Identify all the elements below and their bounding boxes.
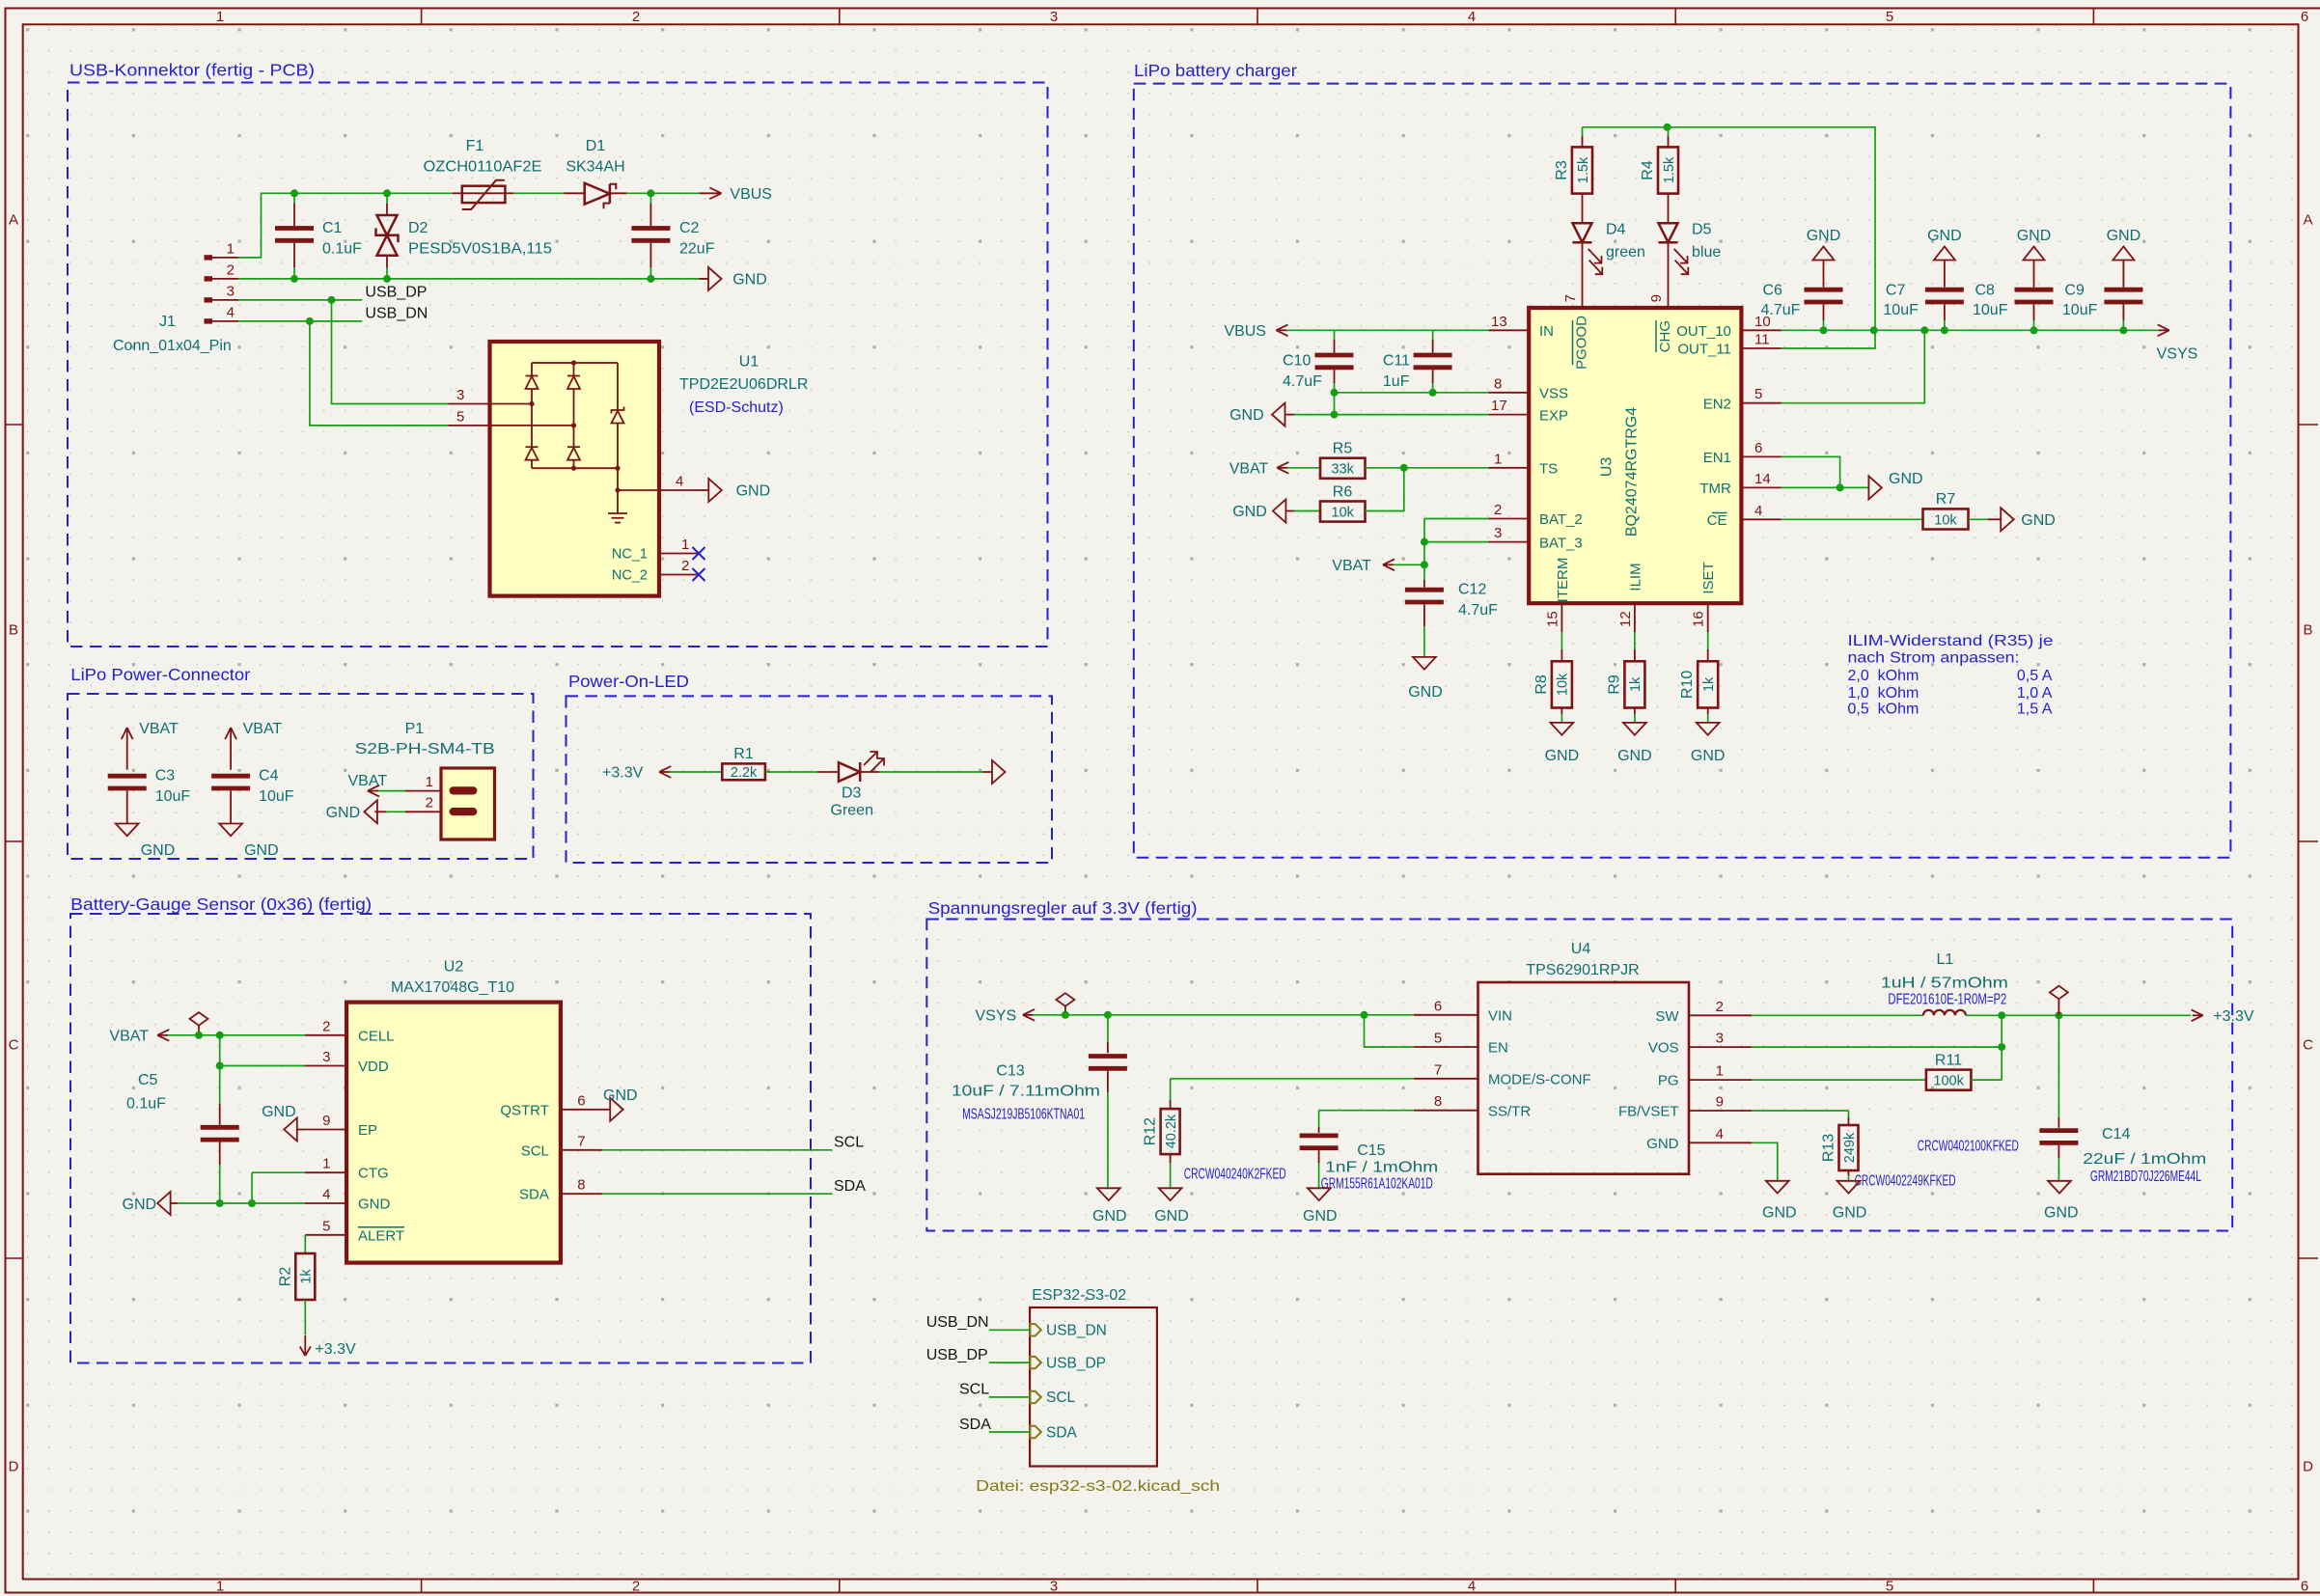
U1 pin 4 GND — [659, 474, 770, 503]
svg-text:BAT_2: BAT_2 — [1539, 511, 1583, 528]
resistor R6 10k — [1294, 483, 1366, 521]
svg-text:SCL: SCL — [1046, 1390, 1076, 1406]
svg-text:TPS62901RPJR: TPS62901RPJR — [1526, 962, 1639, 978]
hierarchical label VSYS right — [2157, 324, 2198, 362]
svg-text:CE: CE — [1707, 512, 1727, 529]
svg-text:GND: GND — [326, 805, 361, 821]
U3 bottom pin 12 wire — [1617, 603, 1635, 661]
svg-text:C9: C9 — [2064, 283, 2085, 299]
svg-text:C4: C4 — [259, 768, 279, 784]
svg-text:2: 2 — [632, 1579, 640, 1595]
svg-text:22uF: 22uF — [679, 241, 715, 258]
svg-text:P1: P1 — [405, 721, 425, 737]
svg-text:1nF / 1mOhm: 1nF / 1mOhm — [1325, 1160, 1438, 1176]
wire R7 to GND — [1969, 518, 1989, 520]
resistor R10 1k — [1679, 661, 1718, 707]
svg-text:C10: C10 — [1283, 353, 1311, 370]
svg-text:R5: R5 — [1333, 441, 1353, 457]
svg-text:6: 6 — [1434, 998, 1442, 1014]
svg-text:10k: 10k — [1556, 673, 1571, 696]
svg-text:VSYS: VSYS — [2157, 346, 2198, 363]
svg-text:VDD: VDD — [358, 1059, 389, 1075]
svg-text:MODE/S-CONF: MODE/S-CONF — [1488, 1071, 1591, 1087]
capacitor C12 4.7uF — [1405, 582, 1498, 657]
svg-text:+3.3V: +3.3V — [315, 1341, 356, 1358]
capacitor C2 — [631, 193, 714, 279]
svg-text:0,5 kOhm: 0,5 kOhm — [1848, 701, 1920, 717]
svg-text:R4: R4 — [1640, 160, 1656, 180]
svg-text:PGOOD: PGOOD — [1574, 316, 1590, 370]
svg-text:2,0 kOhm: 2,0 kOhm — [1848, 668, 1920, 684]
hierarchical label GND at QSTRT — [603, 1087, 638, 1121]
svg-text:5: 5 — [322, 1218, 330, 1234]
wire VOS pin 3 — [1689, 1015, 2005, 1080]
svg-text:R10: R10 — [1679, 671, 1696, 699]
U3 bottom pin 15 wire — [1544, 603, 1561, 661]
svg-text:VBAT: VBAT — [243, 721, 283, 737]
svg-text:USB_DN: USB_DN — [1046, 1323, 1107, 1339]
svg-text:R11: R11 — [1935, 1052, 1962, 1068]
section box LiPo Power-Connector — [68, 665, 534, 859]
svg-text:8: 8 — [577, 1177, 585, 1194]
svg-text:OUT_11: OUT_11 — [1677, 342, 1731, 358]
svg-text:ESP32-S3-02: ESP32-S3-02 — [1032, 1287, 1126, 1304]
wire to sheet pin USB_DP — [989, 1362, 1030, 1363]
svg-text:C2: C2 — [679, 220, 700, 236]
svg-text:TPD2E2U06DRLR: TPD2E2U06DRLR — [679, 376, 808, 393]
svg-text:GND: GND — [1762, 1205, 1797, 1222]
svg-text:CRCW0402100KFKED: CRCW0402100KFKED — [1918, 1138, 2019, 1154]
svg-text:Power-On-LED: Power-On-LED — [568, 672, 689, 691]
svg-text:D: D — [2303, 1459, 2313, 1475]
svg-text:USB_DN: USB_DN — [365, 305, 428, 321]
svg-text:C6: C6 — [1763, 283, 1783, 299]
svg-text:6: 6 — [577, 1092, 585, 1109]
ground symbol below R10 — [1691, 708, 1726, 765]
capacitor C4 — [211, 768, 294, 806]
sheet pin SDA — [1030, 1424, 1077, 1441]
wire R1 to D3 — [765, 771, 817, 773]
svg-text:GND: GND — [1889, 471, 1923, 487]
svg-text:4: 4 — [1468, 9, 1476, 25]
svg-text:MAX17048G_T10: MAX17048G_T10 — [391, 979, 514, 996]
resistor R5 33k — [1287, 441, 1366, 479]
wire +3.3V to R1 — [670, 771, 722, 773]
wire to sheet pin SDA — [989, 1431, 1030, 1433]
ground symbol below R8 — [1545, 708, 1580, 765]
svg-text:green: green — [1606, 244, 1645, 261]
hierarchical label GND at EP — [262, 1104, 305, 1142]
svg-text:R12: R12 — [1143, 1117, 1159, 1145]
wire TS row pin 1 — [1366, 451, 1530, 472]
svg-text:1uF: 1uF — [1383, 373, 1410, 390]
svg-text:2.2k: 2.2k — [731, 765, 758, 781]
svg-text:SCL: SCL — [521, 1142, 549, 1159]
svg-text:7: 7 — [577, 1133, 585, 1149]
wire SS/TR pin 8 to C15 — [1319, 1093, 1478, 1133]
wire R6 to TS junction — [1366, 468, 1404, 511]
svg-text:7: 7 — [1434, 1061, 1442, 1078]
svg-text:ISET: ISET — [1700, 562, 1717, 593]
ground symbol below C3 — [116, 790, 175, 859]
svg-text:U2: U2 — [444, 959, 464, 976]
svg-text:GND: GND — [2017, 228, 2052, 244]
svg-text:D4: D4 — [1606, 222, 1626, 238]
wire ALERT pin 5 to R2 — [305, 1218, 346, 1253]
svg-text:CTG: CTG — [358, 1166, 389, 1182]
svg-text:D3: D3 — [842, 785, 862, 802]
hierarchical label GND at U2 GND — [123, 1192, 179, 1215]
junction dots VSS EXP — [1331, 389, 1437, 419]
svg-text:QSTRT: QSTRT — [500, 1102, 549, 1118]
wire VDD row pin 3 — [216, 1049, 346, 1070]
sheet pin USB_DP — [1030, 1355, 1106, 1371]
svg-text:GRM155R61A102KA01D: GRM155R61A102KA01D — [1321, 1176, 1433, 1193]
hierarchical label unnamed output — [982, 760, 1006, 784]
svg-text:A: A — [9, 212, 18, 229]
svg-text:GND: GND — [1408, 684, 1443, 701]
ground symbol below R12 — [1154, 1154, 1189, 1225]
svg-text:1k: 1k — [1701, 676, 1717, 692]
capacitor C9 10uF — [2062, 283, 2143, 331]
U3 bottom pin 16 wire — [1691, 603, 1708, 661]
IC U2 MAX17048G_T10 — [346, 959, 561, 1263]
ground symbol below C13 — [1092, 1188, 1127, 1225]
capacitor C14 22uF — [2039, 1015, 2206, 1185]
svg-text:C8: C8 — [1975, 283, 1996, 299]
power label GND above C7 — [1927, 228, 1962, 287]
svg-text:15: 15 — [1544, 611, 1560, 627]
svg-text:USB_DN: USB_DN — [926, 1314, 989, 1331]
svg-text:4: 4 — [227, 304, 235, 320]
wire SW pin 2 to L1 — [1689, 999, 1923, 1016]
wire GND rail pin2 — [238, 278, 709, 280]
wire VSYS to VIN pin 6 — [1033, 998, 1478, 1019]
svg-text:USB_DP: USB_DP — [365, 284, 427, 300]
wire PG pin 1 to R11 — [1689, 1063, 1926, 1081]
U1 internal diode array — [526, 360, 660, 522]
LED D4 green — [1573, 194, 1645, 308]
ground symbol below R9 — [1617, 708, 1652, 765]
svg-text:1,5 A: 1,5 A — [2017, 701, 2053, 717]
power label +3.3V below R2 — [300, 1335, 356, 1358]
ground symbol below R13 — [1833, 1170, 1867, 1222]
svg-text:SDA: SDA — [1046, 1424, 1078, 1441]
svg-text:J1: J1 — [159, 314, 176, 330]
note ILIM resistor table — [1848, 633, 2054, 717]
svg-text:GND: GND — [603, 1087, 638, 1104]
svg-text:6: 6 — [2301, 9, 2308, 25]
svg-text:7: 7 — [1562, 294, 1579, 302]
svg-text:4.7uF: 4.7uF — [1458, 602, 1498, 619]
wire OUT_11 pin 11 — [1741, 332, 1781, 349]
svg-text:GND: GND — [2021, 512, 2056, 529]
svg-text:USB-Konnektor (fertig - PCB): USB-Konnektor (fertig - PCB) — [69, 61, 315, 80]
svg-text:VBAT: VBAT — [139, 721, 179, 737]
svg-text:10uF: 10uF — [259, 788, 294, 805]
svg-text:10uF / 7.11mOhm: 10uF / 7.11mOhm — [952, 1084, 1100, 1100]
wire SDA pin 8 — [561, 1177, 832, 1195]
svg-text:GND: GND — [2107, 228, 2141, 244]
svg-text:VBUS: VBUS — [730, 186, 772, 203]
svg-text:C7: C7 — [1886, 283, 1906, 299]
wire vertical CELL to C5 to GND — [219, 1035, 221, 1203]
svg-text:ALERT: ALERT — [358, 1227, 404, 1244]
svg-text:VBUS: VBUS — [1224, 323, 1266, 340]
svg-text:SW: SW — [1655, 1008, 1679, 1025]
section box Power-On-LED — [566, 672, 1053, 863]
svg-text:LiPo Power-Connector: LiPo Power-Connector — [70, 665, 250, 684]
IC U3 BQ24074RGTRG4 — [1529, 308, 1741, 603]
svg-text:1: 1 — [216, 1579, 224, 1595]
svg-text:IN: IN — [1539, 323, 1554, 340]
svg-text:2: 2 — [322, 1018, 330, 1034]
svg-text:ILIM: ILIM — [1627, 563, 1643, 591]
resistor R13 249k — [1821, 1125, 1956, 1190]
section box LiPo battery charger — [1134, 61, 2231, 858]
svg-text:R7: R7 — [1936, 491, 1956, 508]
svg-text:10uF: 10uF — [1883, 302, 1919, 318]
svg-text:3: 3 — [322, 1049, 330, 1065]
fuse F1 OZCH0110AF2E — [424, 138, 542, 209]
svg-text:A: A — [2303, 212, 2312, 229]
wire MODE pin 7 to R12 — [1171, 1061, 1478, 1109]
svg-text:GND: GND — [732, 272, 767, 289]
section box Spannungsregler auf 3.3V (fertig) — [926, 898, 2232, 1231]
svg-text:SCL: SCL — [959, 1382, 989, 1398]
svg-text:GND: GND — [123, 1197, 157, 1213]
svg-text:14: 14 — [1754, 471, 1771, 487]
svg-text:CRCW040240K2FKED: CRCW040240K2FKED — [1184, 1166, 1286, 1182]
svg-text:D5: D5 — [1692, 222, 1712, 238]
svg-text:USB_DP: USB_DP — [926, 1347, 988, 1363]
svg-text:GND: GND — [358, 1197, 391, 1213]
junction top rail — [1664, 124, 1671, 131]
power label +3.3V led — [602, 765, 671, 782]
svg-text:GND: GND — [1154, 1208, 1189, 1225]
svg-text:OUT_10: OUT_10 — [1676, 323, 1731, 340]
svg-text:EN1: EN1 — [1703, 450, 1731, 466]
resistor R11 100k — [1918, 1052, 2019, 1154]
svg-text:1: 1 — [216, 9, 224, 25]
svg-text:3: 3 — [1716, 1031, 1724, 1047]
capacitor C6 4.7uF — [1761, 283, 1843, 331]
svg-text:LiPo battery charger: LiPo battery charger — [1134, 61, 1297, 80]
svg-text:5: 5 — [1886, 9, 1893, 25]
wire VBUS to IN pin 13 — [1286, 314, 1529, 330]
wire P1 pin2 — [386, 811, 405, 812]
svg-text:R6: R6 — [1333, 483, 1353, 500]
wire EN1 pin 6 — [1741, 440, 1839, 488]
svg-text:EN: EN — [1488, 1040, 1508, 1057]
wire U4 GND pin 4 — [1689, 1126, 1778, 1181]
capacitor C10 4.7uF — [1283, 330, 1354, 393]
svg-text:5: 5 — [1886, 1579, 1893, 1595]
svg-text:1: 1 — [1716, 1063, 1724, 1080]
svg-text:4: 4 — [1468, 1579, 1476, 1595]
svg-text:6: 6 — [1754, 440, 1762, 456]
wire EN2 pin 5 — [1741, 330, 1924, 402]
svg-text:1: 1 — [322, 1156, 330, 1172]
svg-text:VOS: VOS — [1648, 1040, 1679, 1057]
svg-text:4: 4 — [676, 474, 683, 490]
svg-text:VBAT: VBAT — [1229, 460, 1269, 477]
svg-text:3: 3 — [1050, 1579, 1058, 1595]
hierarchical label +3.3V right — [2192, 1008, 2254, 1025]
wire P1 pin1 — [377, 790, 405, 792]
resistor R3 1.5k — [1554, 127, 1592, 194]
svg-text:USB_DP: USB_DP — [1046, 1355, 1106, 1371]
svg-text:R8: R8 — [1533, 674, 1550, 695]
wire VSS row pin 8 — [1335, 375, 1530, 393]
svg-text:TMR: TMR — [1699, 481, 1731, 497]
svg-text:8: 8 — [1434, 1093, 1442, 1110]
capacitor C5 0.1uF — [126, 1072, 239, 1140]
wire OUT_10 row to VSYS — [1741, 314, 2159, 331]
svg-text:GND: GND — [262, 1104, 296, 1120]
svg-text:2: 2 — [632, 9, 640, 25]
svg-text:100k: 100k — [1933, 1073, 1964, 1088]
Schottky diode D1 SK34AH — [564, 138, 626, 208]
wire EP row pin 9 — [305, 1113, 346, 1130]
svg-text:9: 9 — [322, 1113, 330, 1129]
svg-text:GND: GND — [1807, 228, 1841, 244]
sheet pin SCL — [1030, 1390, 1075, 1406]
LED D3 Green — [817, 752, 884, 819]
svg-text:4.7uF: 4.7uF — [1283, 373, 1322, 390]
svg-text:GND: GND — [736, 483, 771, 500]
svg-text:1: 1 — [1494, 451, 1502, 467]
svg-text:33k: 33k — [1332, 462, 1355, 478]
svg-text:GND: GND — [141, 842, 176, 859]
connector J1 Conn_01x04_Pin — [113, 240, 238, 354]
U3 pin names — [1539, 316, 1731, 602]
svg-text:VBAT: VBAT — [109, 1028, 149, 1044]
ground symbol below C15 — [1303, 1188, 1338, 1225]
svg-text:1,0 A: 1,0 A — [2017, 685, 2053, 702]
power label VBAT at C3 — [122, 721, 179, 770]
svg-text:10k: 10k — [1934, 512, 1957, 528]
capacitor C3 — [108, 768, 191, 806]
hierarchical label GND at R6 — [1232, 500, 1294, 523]
resistor R8 10k — [1533, 661, 1572, 707]
svg-text:GND: GND — [1927, 228, 1962, 244]
U1 pin 5 — [449, 408, 574, 426]
svg-text:NC_2: NC_2 — [612, 568, 648, 584]
svg-text:U3: U3 — [1599, 457, 1616, 478]
svg-text:GND: GND — [1232, 504, 1267, 520]
wire L1 to +3.3V — [1966, 1011, 2191, 1019]
hierarchical label VBAT at BAT — [1332, 558, 1424, 574]
U2 pin names — [358, 1028, 549, 1244]
svg-text:249k: 249k — [1842, 1132, 1858, 1163]
svg-text:R3: R3 — [1554, 160, 1570, 180]
svg-text:blue: blue — [1692, 244, 1721, 261]
svg-text:OZCH0110AF2E: OZCH0110AF2E — [424, 159, 542, 176]
svg-text:10uF: 10uF — [1973, 302, 2008, 318]
wire CE pin 4 to R7 — [1741, 503, 1922, 520]
svg-text:0.1uF: 0.1uF — [322, 241, 362, 258]
svg-text:22uF / 1mOhm: 22uF / 1mOhm — [2083, 1151, 2206, 1168]
svg-text:PESD5V0S1BA,115: PESD5V0S1BA,115 — [408, 241, 552, 258]
hierarchical label VBAT at CELL — [109, 1028, 169, 1044]
svg-text:+3.3V: +3.3V — [2213, 1008, 2254, 1025]
svg-text:13: 13 — [1491, 314, 1507, 330]
svg-text:BQ24074RGTRG4: BQ24074RGTRG4 — [1624, 407, 1641, 537]
svg-text:SK34AH: SK34AH — [566, 159, 624, 176]
svg-text:5: 5 — [1754, 386, 1762, 402]
wire pin3 USB_DP — [238, 300, 449, 404]
svg-text:10uF: 10uF — [155, 788, 191, 805]
capacitor C7 10uF — [1883, 283, 1964, 331]
capacitor C1 — [275, 193, 362, 279]
ground symbol below C4 — [219, 790, 278, 859]
svg-text:EXP: EXP — [1539, 407, 1568, 424]
svg-text:R9: R9 — [1606, 674, 1622, 695]
svg-text:17: 17 — [1491, 398, 1507, 414]
svg-text:C14: C14 — [2102, 1126, 2130, 1142]
svg-text:3: 3 — [1494, 525, 1502, 541]
svg-text:DFE201610E-1R0M=P2: DFE201610E-1R0M=P2 — [1888, 992, 2006, 1008]
svg-text:D1: D1 — [586, 138, 606, 154]
svg-text:(ESD-Schutz): (ESD-Schutz) — [689, 399, 784, 416]
svg-text:FB/VSET: FB/VSET — [1618, 1104, 1679, 1120]
hierarchical label GND at TMR — [1868, 471, 1922, 500]
svg-text:10k: 10k — [1332, 505, 1355, 520]
svg-text:R1: R1 — [733, 746, 754, 762]
svg-text:VBAT: VBAT — [348, 773, 388, 789]
svg-text:CRCW0402249KFKED: CRCW0402249KFKED — [1855, 1173, 1956, 1190]
svg-text:10uF: 10uF — [2062, 302, 2098, 318]
svg-text:GND: GND — [1092, 1208, 1127, 1225]
hierarchical label VBAT at P1 — [348, 773, 388, 797]
svg-text:D: D — [9, 1459, 19, 1475]
svg-text:4.7uF: 4.7uF — [1761, 302, 1801, 318]
svg-text:SDA: SDA — [959, 1417, 991, 1433]
svg-text:U4: U4 — [1571, 941, 1591, 957]
svg-text:C: C — [9, 1037, 19, 1054]
svg-text:GND: GND — [1545, 748, 1580, 764]
sheet pin USB_DN — [1030, 1323, 1106, 1339]
svg-text:1: 1 — [681, 537, 689, 553]
IC U4 TPS62901RPJR — [1478, 941, 1690, 1174]
capacitor C11 1uF — [1383, 330, 1452, 393]
sheet ESP32-S3-02 — [976, 1287, 1220, 1495]
resistor R7 10k — [1923, 491, 1969, 530]
wire EN pin 5 — [1365, 1015, 1478, 1047]
wire BAT vertical to C12 — [1421, 519, 1428, 588]
wire GND row pin 4 — [178, 1187, 346, 1208]
wire CTG row pin 1 — [252, 1156, 346, 1203]
svg-text:+3.3V: +3.3V — [602, 765, 644, 782]
svg-text:9: 9 — [1716, 1094, 1724, 1111]
svg-text:40.2k: 40.2k — [1164, 1114, 1179, 1148]
svg-text:CHG: CHG — [1657, 320, 1673, 352]
svg-text:D2: D2 — [408, 220, 428, 236]
junction dots VSYS rail — [1820, 326, 2128, 334]
wire to sheet pin SCL — [989, 1396, 1030, 1398]
svg-text:5: 5 — [1434, 1031, 1442, 1047]
svg-text:TS: TS — [1539, 461, 1558, 478]
svg-text:C15: C15 — [1357, 1142, 1385, 1159]
svg-text:2: 2 — [1716, 999, 1724, 1015]
svg-text:1,0 kOhm: 1,0 kOhm — [1848, 685, 1920, 702]
svg-text:VSYS: VSYS — [976, 1007, 1017, 1024]
U4 pin names — [1488, 1007, 1679, 1152]
svg-text:R13: R13 — [1821, 1134, 1837, 1162]
wire D3 to output — [879, 771, 982, 773]
svg-text:6: 6 — [2301, 1579, 2308, 1595]
